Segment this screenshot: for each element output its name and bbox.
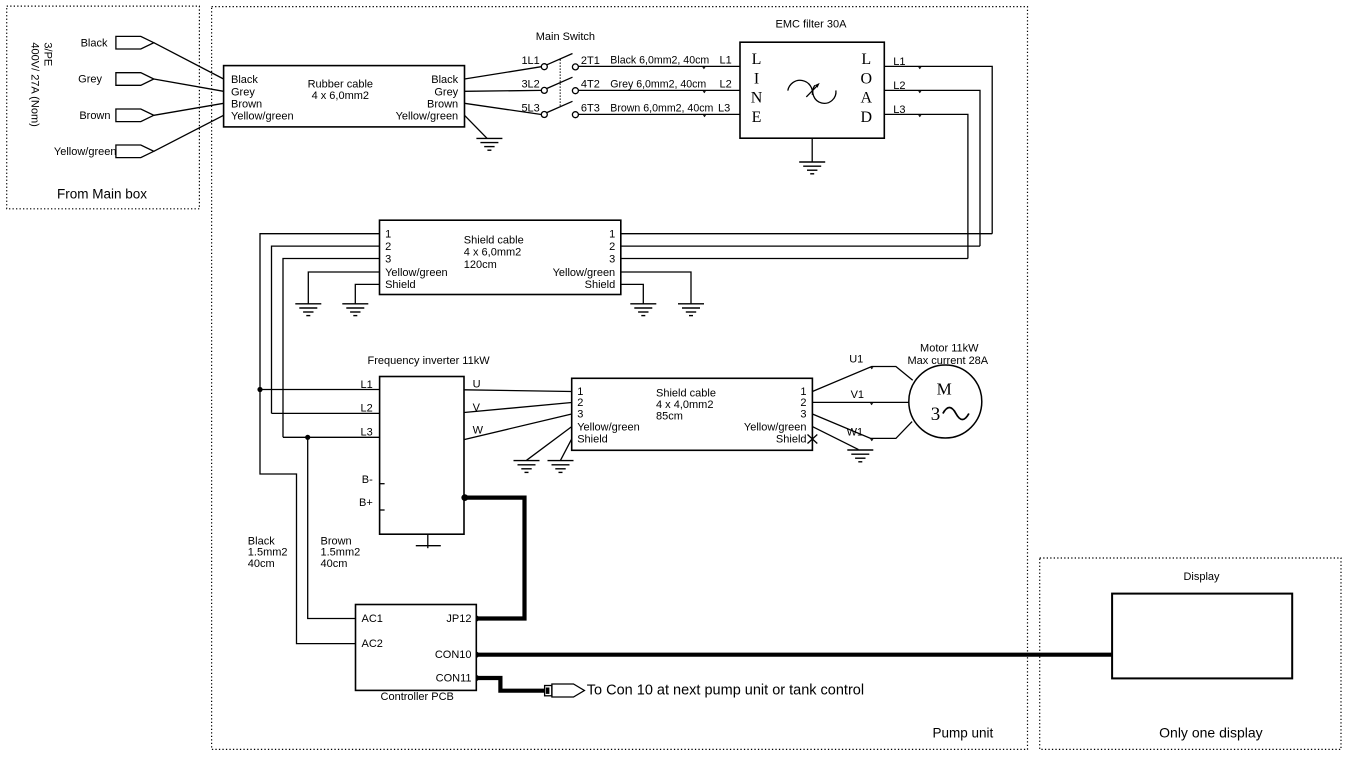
ground (shield cable 1 left yellow/green): [295, 304, 321, 316]
wire shield cable 2 left yellow/green to ground: [527, 427, 572, 461]
ground (motor cable yellow/green): [847, 450, 873, 462]
svg-text:40cm: 40cm: [321, 558, 348, 570]
wire U to shield cable 2 pin1: [464, 390, 572, 392]
wire yellow/green terminal to rubber cable: [154, 115, 224, 151]
svg-text:Yellow/green: Yellow/green: [553, 267, 616, 279]
motor sine symbol: [943, 408, 969, 420]
svg-text:From Main box: From Main box: [57, 187, 147, 202]
svg-text:3: 3: [577, 409, 583, 421]
controller PCB box: [356, 605, 477, 691]
ground (shield cable 1 left shield): [342, 304, 368, 316]
terminal tick L2 line side: [703, 91, 706, 93]
inverter chassis ground: [427, 534, 429, 548]
svg-text:Grey: Grey: [434, 86, 458, 98]
wire grey terminal to rubber cable: [154, 79, 224, 91]
wire rubber cable yellow/green to ground: [465, 115, 488, 138]
svg-text:2: 2: [385, 241, 391, 253]
wire W to shield cable 2 pin3: [464, 414, 572, 440]
svg-text:1.5mm2: 1.5mm2: [321, 547, 361, 559]
svg-text:2: 2: [577, 397, 583, 409]
svg-text:B+: B+: [359, 497, 373, 509]
terminal tick L3 line side: [703, 115, 706, 117]
ground (shield cable 2 left shield): [548, 461, 574, 473]
wire rubber cable brown to switch 5L3: [465, 103, 542, 114]
wire shield cable 1 pin2 to L2 vertical: [272, 246, 380, 413]
svg-text:U: U: [473, 379, 481, 391]
shield cable 2 box: [572, 378, 813, 450]
wire shield cable 1 right pin2: [621, 245, 980, 247]
switch pole 1 blade: [547, 54, 573, 65]
wire brown 1.5mm2 to AC1: [308, 437, 356, 618]
svg-text:To Con 10 at next pump unit or: To Con 10 at next pump unit or tank cont…: [587, 683, 864, 699]
svg-text:Only one display: Only one display: [1159, 725, 1263, 741]
svg-text:Shield: Shield: [577, 434, 608, 446]
switch mechanical link (dotted): [559, 60, 561, 107]
pump-unit dashed enclosure: [212, 7, 1028, 750]
wire L1 into inverter: [260, 389, 380, 391]
ground (shield cable 1 right yellow/green): [678, 304, 704, 316]
svg-text:3: 3: [609, 253, 615, 265]
svg-text:A: A: [861, 90, 873, 107]
terminal tick W1: [870, 439, 873, 441]
svg-text:Shield cable: Shield cable: [464, 234, 524, 246]
svg-text:Brown 6,0mm2, 40cm: Brown 6,0mm2, 40cm: [610, 103, 713, 115]
node JP12: [473, 615, 479, 621]
svg-text:2: 2: [800, 397, 806, 409]
wire EMC ground stub: [811, 138, 813, 162]
svg-text:Yellow/green: Yellow/green: [396, 110, 459, 122]
svg-text:1: 1: [609, 229, 615, 241]
rubber cable box: [224, 66, 465, 127]
svg-text:Shield: Shield: [385, 279, 416, 291]
node CON11: [473, 675, 479, 681]
svg-text:L3: L3: [361, 427, 373, 439]
svg-text:L1: L1: [893, 56, 905, 68]
motor M1 circle: [909, 365, 982, 438]
svg-text:CON11: CON11: [436, 672, 472, 684]
svg-text:85cm: 85cm: [656, 410, 683, 422]
svg-text:Motor 11kW: Motor 11kW: [920, 343, 979, 355]
wire shield cable 2 right yellow/green to ground: [812, 427, 858, 450]
junction node L1/black: [257, 387, 262, 392]
EMC filter sine symbol: [788, 80, 813, 95]
connector terminal Grey: [116, 73, 154, 86]
thick wire CON10 to display: [476, 653, 1112, 657]
wire L3 into inverter: [283, 436, 380, 438]
svg-text:120cm: 120cm: [464, 259, 497, 271]
svg-text:L2: L2: [720, 79, 732, 91]
svg-text:Grey: Grey: [231, 86, 255, 98]
thick wire CON11 to next unit connector: [476, 678, 545, 691]
node B+ tap: [461, 494, 468, 501]
thick wire B+ to JP12: [464, 498, 525, 619]
wire shield cable 1 right pin1: [621, 233, 992, 235]
svg-text:V1: V1: [851, 389, 864, 401]
svg-text:Black: Black: [81, 37, 108, 49]
ground (rubber cable yellow/green): [476, 138, 502, 150]
svg-text:O: O: [861, 70, 873, 87]
switch pole 2 blade: [547, 77, 573, 88]
wire EMC load L1: [884, 66, 992, 233]
EMC filter U1 box: [740, 42, 884, 138]
wire 2T1 to EMC L1 (black 6,0mm2): [578, 65, 740, 67]
svg-text:Black: Black: [248, 535, 275, 547]
svg-text:Yellow/green: Yellow/green: [54, 146, 117, 158]
terminal tick U1: [870, 367, 873, 369]
svg-text:L1: L1: [361, 379, 373, 391]
switch pole 3 contact 5L3: [541, 112, 547, 118]
svg-text:4 x 6,0mm2: 4 x 6,0mm2: [312, 90, 369, 102]
connector plug to next pump unit: [545, 686, 552, 696]
svg-text:Shield cable: Shield cable: [656, 388, 716, 400]
wire rubber cable grey to switch 3L2: [465, 89, 542, 92]
wire EMC load L2: [884, 90, 980, 246]
svg-text:4T2: 4T2: [581, 79, 600, 91]
rotated supply rating label 3/PE 400V/27A: [29, 42, 54, 126]
display dashed enclosure: [1040, 558, 1341, 749]
svg-text:1.5mm2: 1.5mm2: [248, 547, 288, 559]
svg-text:5L3: 5L3: [521, 103, 539, 115]
svg-text:I: I: [754, 70, 759, 87]
wire shield cable 1 left yellow/green to ground: [308, 272, 379, 304]
svg-text:Brown: Brown: [321, 535, 352, 547]
svg-text:3: 3: [385, 253, 391, 265]
svg-text:40cm: 40cm: [248, 558, 275, 570]
svg-text:Max current 28A: Max current 28A: [907, 355, 988, 367]
svg-text:1: 1: [385, 229, 391, 241]
wire rubber cable black to switch 1L1: [465, 67, 542, 79]
wire brown terminal to rubber cable: [154, 103, 224, 115]
svg-text:Controller PCB: Controller PCB: [381, 691, 454, 703]
terminal tick L1 load side: [918, 67, 921, 69]
svg-text:W1: W1: [847, 427, 864, 439]
svg-text:CON10: CON10: [435, 649, 472, 661]
ground (EMC filter): [799, 162, 825, 174]
switch pole 3 contact 6T3: [572, 112, 578, 118]
svg-text:Black 6,0mm2, 40cm: Black 6,0mm2, 40cm: [610, 55, 709, 67]
wire shield cable 1 right shield to ground: [621, 284, 644, 303]
svg-text:Shield: Shield: [776, 434, 807, 446]
svg-text:Black: Black: [231, 74, 258, 86]
from-main-box dashed enclosure: [7, 6, 200, 209]
svg-text:Black: Black: [431, 74, 458, 86]
svg-text:L1: L1: [720, 55, 732, 67]
ground (shield cable 2 left yellow/green): [514, 461, 540, 473]
node CON10: [473, 652, 479, 658]
svg-text:4 x 4,0mm2: 4 x 4,0mm2: [656, 399, 713, 411]
svg-text:Yellow/green: Yellow/green: [231, 110, 294, 122]
svg-text:L3: L3: [893, 104, 905, 116]
terminal tick V1: [870, 403, 873, 405]
svg-text:3/PE: 3/PE: [42, 42, 54, 66]
svg-text:400V/ 27A (Nom): 400V/ 27A (Nom): [29, 42, 41, 126]
wire black 1.5mm2 to AC2: [260, 390, 356, 644]
svg-text:Yellow/green: Yellow/green: [385, 267, 448, 279]
svg-text:N: N: [751, 90, 763, 107]
svg-text:Rubber cable: Rubber cable: [308, 78, 373, 90]
switch pole 1 contact 2T1: [572, 64, 578, 70]
connector terminal Brown: [116, 109, 154, 122]
svg-text:L3: L3: [718, 103, 730, 115]
wire 6T3 to EMC L3 (brown 6,0mm2): [578, 113, 740, 115]
switch pole 2 contact 3L2: [541, 87, 547, 93]
wire 4T2 to EMC L2 (grey 6,0mm2): [578, 89, 740, 91]
wire shield cable 2 left shield to ground: [561, 439, 572, 460]
terminal tick L3 load side: [918, 115, 921, 117]
svg-text:Brown: Brown: [79, 110, 110, 122]
display unit rectangle: [1112, 594, 1292, 679]
svg-text:E: E: [752, 109, 762, 126]
svg-text:L2: L2: [893, 80, 905, 92]
frequency inverter box: [380, 377, 464, 535]
svg-text:4 x 6,0mm2: 4 x 6,0mm2: [464, 247, 521, 259]
svg-text:Display: Display: [1183, 571, 1220, 583]
wire black terminal to rubber cable: [154, 43, 224, 79]
svg-text:Grey: Grey: [78, 74, 102, 86]
svg-text:3: 3: [800, 409, 806, 421]
svg-text:Yellow/green: Yellow/green: [744, 421, 807, 433]
svg-text:M: M: [937, 379, 952, 398]
svg-text:Brown: Brown: [427, 98, 458, 110]
wire shield cable 2 pin3 to motor W1: [812, 414, 912, 438]
svg-text:Grey 6,0mm2, 40cm: Grey 6,0mm2, 40cm: [610, 79, 706, 91]
switch pole 1 contact 1L1: [541, 64, 547, 70]
svg-text:L: L: [861, 51, 871, 68]
wire shield cable 1 right pin3: [621, 258, 968, 260]
terminal tick L2 load side: [918, 91, 921, 93]
svg-text:2: 2: [609, 241, 615, 253]
wire shield cable 1 left shield to ground: [355, 284, 379, 303]
switch pole 3 blade: [547, 101, 573, 112]
ground (shield cable 1 right shield): [630, 304, 656, 316]
connector terminal Black (from main box): [116, 36, 154, 49]
wire L2 into inverter: [272, 412, 380, 414]
svg-text:2T1: 2T1: [581, 55, 600, 67]
wire shield cable 1 pin3 to L3 vertical: [283, 259, 380, 438]
wire shield cable 2 pin1 to motor U1: [812, 367, 912, 392]
svg-text:6T3: 6T3: [581, 103, 600, 115]
svg-text:B-: B-: [362, 474, 373, 486]
shield not connected X mark: [808, 435, 818, 444]
svg-text:Yellow/green: Yellow/green: [577, 421, 640, 433]
wire V to shield cable 2 pin2: [464, 403, 572, 413]
switch pole 2 contact 4T2: [572, 88, 578, 94]
svg-text:1L1: 1L1: [521, 55, 539, 67]
shield cable 1 box: [380, 220, 621, 294]
wire shield cable 2 pin2 to motor V1: [812, 401, 908, 403]
svg-text:AC1: AC1: [362, 613, 383, 625]
connector terminal Yellow/green: [116, 145, 154, 158]
junction node L3/brown: [305, 435, 310, 440]
svg-text:L: L: [752, 51, 762, 68]
svg-text:JP12: JP12: [446, 613, 471, 625]
terminal tick L1 line side: [702, 67, 705, 69]
svg-text:3: 3: [931, 404, 941, 425]
svg-text:Brown: Brown: [231, 98, 262, 110]
svg-text:Pump unit: Pump unit: [933, 726, 994, 741]
svg-text:EMC filter 30A: EMC filter 30A: [776, 19, 848, 31]
svg-text:D: D: [861, 109, 873, 126]
svg-text:Frequency inverter 11kW: Frequency inverter 11kW: [368, 355, 491, 367]
svg-text:Shield: Shield: [585, 279, 616, 291]
svg-text:Main Switch: Main Switch: [536, 31, 595, 43]
svg-text:3L2: 3L2: [521, 79, 539, 91]
svg-text:U1: U1: [849, 354, 863, 366]
wire EMC load L3: [884, 114, 968, 258]
svg-text:AC2: AC2: [362, 638, 383, 650]
wire shield cable 1 pin1 to L1 vertical: [260, 234, 380, 390]
svg-text:L2: L2: [361, 403, 373, 415]
wire shield cable 1 right yellow/green to ground: [621, 272, 691, 304]
